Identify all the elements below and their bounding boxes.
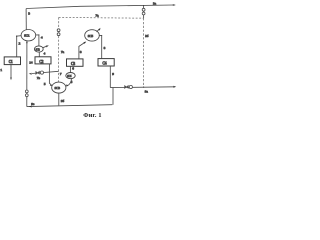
compressor SC4 [66, 73, 75, 79]
wire bottom collector line [27, 105, 113, 107]
wire line 2 from C1 top to SC1 with arrow [17, 36, 22, 57]
svg-text:Фиг. 1: Фиг. 1 [83, 112, 102, 119]
svg-text:9в: 9в [31, 102, 35, 106]
node junction 9a / dashed vertical [143, 87, 144, 88]
column C4 [98, 59, 114, 66]
wire main left vertical from SC1 bottom down to bottom line [26, 41, 28, 107]
valve V1 (two circles on riser at top right) [143, 6, 145, 19]
svg-text:6: 6 [71, 80, 73, 84]
wire SC1 right to SC2 top (line 4) [36, 35, 39, 46]
wire C3 top riser to SC5 with arrow (line 8) [79, 42, 85, 58]
compressor SC2 [34, 46, 43, 52]
svg-text:7в: 7в [37, 76, 41, 80]
svg-text:4: 4 [44, 51, 46, 55]
svg-text:C1: C1 [9, 60, 13, 64]
wire line 7a dashed horizontal [59, 16, 144, 19]
svg-text:6: 6 [72, 67, 74, 71]
svg-text:1: 1 [0, 68, 2, 72]
node junction top valve [143, 5, 144, 6]
valve V4 bowtie on 9a line [125, 86, 129, 89]
svg-text:4: 4 [41, 35, 43, 39]
wire SC3 bottom to collector [58, 93, 60, 106]
svg-text:C2: C2 [39, 60, 43, 64]
svg-text:SC1: SC1 [24, 34, 30, 38]
wire C3 bottom to SC4 (line 6) [69, 66, 71, 72]
wire dashed vertical right from 7a line to 9a line [143, 18, 145, 87]
valve V3 bowtie on 7b line [36, 71, 40, 74]
arrow 9a right end [173, 86, 176, 88]
svg-text:9б: 9б [61, 99, 65, 103]
arrow on bottom line pointing left [29, 106, 32, 108]
wire line 3 / 3a top horizontal [26, 5, 173, 9]
arrow up into SC1 bottom [26, 41, 28, 44]
wire dashed vertical line 7 from corner down to SC3 [58, 17, 60, 82]
wire line 9a right horizontal [110, 86, 175, 89]
svg-text:SC5: SC5 [88, 34, 94, 38]
column C3 [67, 59, 84, 66]
svg-text:9: 9 [112, 72, 114, 76]
svg-text:7а: 7а [61, 50, 65, 54]
svg-text:9а: 9а [145, 89, 149, 93]
svg-text:C3: C3 [71, 62, 75, 66]
column C1 [4, 57, 20, 65]
svg-text:SC3: SC3 [55, 86, 61, 90]
svg-text:C4: C4 [103, 62, 107, 66]
svg-text:8: 8 [104, 46, 106, 50]
svg-text:8: 8 [80, 50, 82, 54]
wire C2 bottom to SC3 left with arrow [49, 64, 51, 85]
wire SC4 down into SC3 (line 6) [67, 79, 71, 86]
compressor SC5 [85, 30, 100, 41]
svg-text:7: 7 [60, 72, 62, 76]
wire riser bottom right Z [112, 88, 114, 105]
wire C1 bottom stub (line 1) [10, 65, 12, 79]
compressor SC1 [21, 30, 36, 41]
wire SC2 outlet arrow up-right (line 4) [43, 46, 48, 48]
compressor SC3 [52, 82, 66, 93]
svg-text:3б: 3б [145, 34, 149, 38]
wire SC5 top outlet arrow [97, 29, 100, 32]
wire line 7b valve line with left arrow [32, 71, 59, 73]
valve V5 (two circles on dashed line 7) [57, 29, 60, 32]
wire SC2 to C2 top [38, 52, 40, 56]
svg-text:7а: 7а [96, 14, 100, 18]
svg-text:5: 5 [44, 82, 46, 86]
wire SC5 right to C4 top (line 8) [99, 36, 102, 59]
svg-text:3: 3 [28, 12, 30, 16]
valve V2 (two circles on left vertical) [25, 90, 28, 93]
wire C4 bottom vertical (line 9) [109, 66, 111, 87]
column C2 [35, 57, 51, 64]
wire riser from SC1 top to line 3 [25, 9, 27, 31]
svg-text:2: 2 [19, 41, 21, 45]
arrow 3a right end [173, 4, 176, 6]
svg-text:14: 14 [29, 61, 33, 65]
svg-text:3а: 3а [153, 1, 157, 5]
